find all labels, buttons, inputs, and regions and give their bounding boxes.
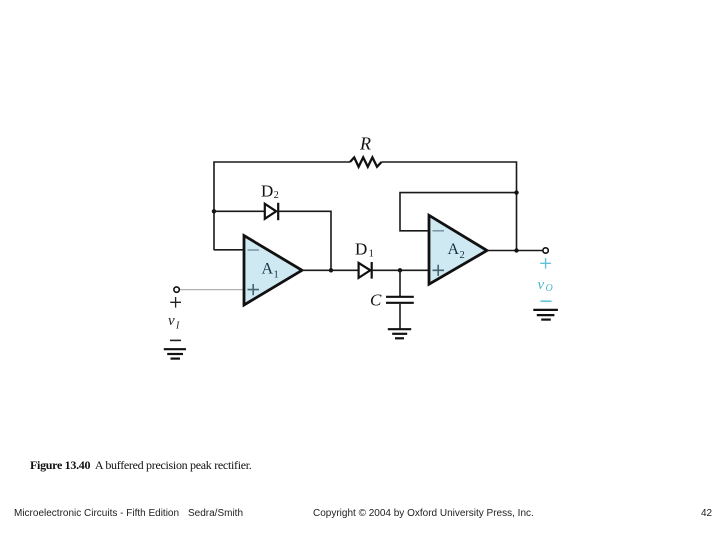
diode D2 [261,182,279,221]
svg-text:I: I [175,321,180,332]
wire: top-right horizontal and right vertical to output node [382,162,517,251]
svg-text:v: v [538,277,545,293]
op-amp A1 [244,236,302,305]
input terminal [174,287,179,292]
source plus sign [170,297,181,308]
wire: D2 branch right segment down to A1 output [278,211,331,270]
capacitor C [370,270,414,329]
node: output node [514,248,518,252]
output terminal [543,248,548,253]
figure caption [30,458,252,473]
wire: A2 output [487,250,543,252]
wire: D1 to A2 noninverting input [372,269,429,271]
svg-text:A: A [262,261,274,278]
svg-text:O: O [546,283,553,294]
label vI [168,313,180,332]
footer left [14,508,179,519]
svg-text:1: 1 [274,270,279,281]
svg-text:2: 2 [460,250,465,261]
svg-text:C: C [370,291,382,310]
wire: A2 feedback loop [400,193,517,231]
output plus sign (cyan) [540,258,551,269]
svg-text:D: D [355,240,367,259]
svg-text:v: v [168,313,175,329]
wire: D2 branch left segment [214,210,264,212]
op-amp A2 [429,215,487,284]
wire: A1 inverting input [214,249,244,251]
ground (output) [533,310,558,320]
diode D1 [355,240,374,279]
footer page number [701,508,712,519]
node: junction of A2 feedback with right vertical [514,190,518,194]
node: junction of capacitor branch [398,268,402,272]
wire: A1 output to D1 [302,269,358,271]
resistor R [350,134,382,167]
svg-text:D: D [261,182,273,201]
node: junction of D2 branch on left feedback [212,209,216,213]
node: junction of D2 branch with A1 output [329,268,333,272]
label vO (cyan) [538,277,553,294]
ground (capacitor) [388,329,411,338]
wire: left feedback vertical and top-left horizontal [214,162,350,250]
svg-text:R: R [359,134,371,154]
svg-text:A: A [448,241,460,258]
ground (input source) [164,349,186,358]
svg-text:2: 2 [274,190,279,201]
source minus sign [170,339,181,341]
wire: A1 noninverting input (gray) [179,289,244,291]
footer author [188,508,243,519]
svg-text:1: 1 [369,249,374,260]
output minus sign (cyan) [541,300,552,302]
footer copyright [313,508,534,519]
